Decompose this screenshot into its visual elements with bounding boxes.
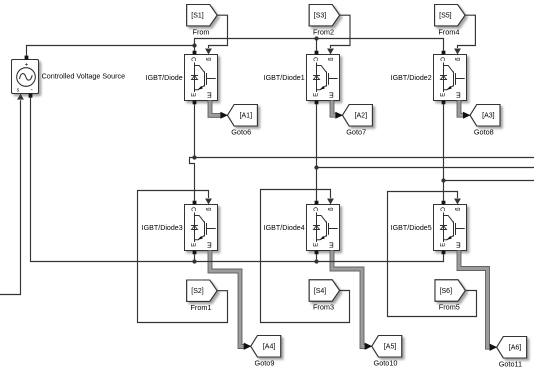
svg-text:From1: From1 (190, 303, 211, 312)
thick measurement wire from m pin of IGBT/Diode2 to [A3] tag (459, 101, 465, 116)
svg-text:-: - (31, 86, 33, 93)
svg-text:IGBT/Diode4: IGBT/Diode4 (264, 224, 305, 232)
arrowhead into [A5] tag (365, 343, 373, 350)
svg-text:[S1]: [S1] (191, 13, 204, 20)
svg-text:From4: From4 (438, 27, 459, 36)
svg-text:Goto8: Goto8 (474, 127, 494, 136)
arrowhead into s input of V1 (17, 94, 24, 100)
node C junction (441, 178, 445, 182)
thick measurement wire from m pin of IGBT/Diode4 to [A5] tag (332, 251, 366, 347)
transistor-diode module IGBT/Diode (top row) (185, 51, 218, 105)
From tag block [S2] (From1) (187, 280, 217, 301)
arrowhead into [A6] tag (490, 344, 498, 351)
wire: gate signal loop from [S2] tag around to g pin (bottom row) (138, 191, 228, 323)
Goto tag block [A4] (Goto9) (251, 336, 281, 358)
svg-text:s: s (17, 88, 20, 94)
wire: gate signal loop from [S4] tag around to g pin (bottom row) (261, 190, 350, 323)
svg-text:+: + (25, 61, 29, 68)
wire: phase C output line to right edge (444, 180, 534, 182)
arrowhead into [A3] tag (463, 112, 471, 119)
svg-text:[S3]: [S3] (314, 13, 327, 20)
wire: positive DC rail from node P to C pins of IGBT/Diode1 and IGBT/Diode2 (195, 39, 444, 51)
wire: gate signal from [S1] tag to g pin (top row) (209, 15, 228, 48)
arrowhead into g pin (from [S2]) (205, 199, 212, 205)
transistor-diode module IGBT/Diode4 (bottom row) (307, 201, 340, 255)
svg-text:From5: From5 (439, 303, 460, 312)
svg-text:[A4]: [A4] (263, 344, 276, 351)
thick measurement wire from m pin of IGBT/Diode3 to [A4] tag (210, 251, 245, 347)
wire: V1 + terminal up and right to node P (27, 46, 195, 57)
svg-text:From3: From3 (313, 303, 334, 312)
svg-text:Controlled Voltage Source: Controlled Voltage Source (42, 72, 126, 81)
transistor-diode module IGBT/Diode1 (top row) (307, 51, 340, 105)
arrowhead into [A1] tag (220, 112, 228, 119)
wire: E of IGBT/Diode4 down to negative rail (316, 254, 318, 261)
arrowhead into [A2] tag (335, 112, 343, 119)
wire: gate signal loop from [S6] tag around to g pin (bottom row) (388, 192, 477, 317)
From tag block [S1] (From) (187, 5, 217, 26)
voltage source V1 (Controlled Voltage Source) block body (12, 60, 39, 94)
svg-text:[A2]: [A2] (355, 113, 368, 120)
arrowhead into g pin (from [S1]) (205, 49, 212, 55)
thick measurement wire from m pin of IGBT/Diode to [A1] tag (210, 101, 222, 116)
node B junction (314, 165, 318, 169)
wire: control signal from left edge into s input of V1 (0, 100, 21, 294)
Goto tag block [A2] (Goto7) (343, 105, 373, 127)
transistor-diode module IGBT/Diode2 (top row) (434, 51, 467, 105)
svg-text:[A3]: [A3] (482, 113, 495, 120)
wire: phase B leg from E of IGBT/Diode1 down to C pin of IGBT/Diode4 (316, 104, 318, 200)
node P junction at C of IGBT/Diode (192, 43, 196, 47)
wire: phase B output line to right edge (317, 167, 534, 169)
wire: E of IGBT/Diode3 down to negative rail (194, 254, 196, 261)
svg-text:Goto11: Goto11 (499, 359, 522, 368)
svg-text:IGBT/Diode2: IGBT/Diode2 (391, 74, 432, 82)
From tag block [S3] (From2) (309, 5, 339, 26)
junction negative rail / IGBT-Diode3 E (192, 259, 196, 263)
wire: phase C leg from E of IGBT/Diode2 down to C pin of IGBT/Diode5 (443, 104, 445, 200)
terminal - port nub of V1 (29, 94, 33, 98)
svg-text:IGBT/Diode5: IGBT/Diode5 (391, 224, 432, 232)
svg-text:Goto7: Goto7 (346, 127, 366, 136)
svg-text:Goto6: Goto6 (231, 127, 251, 136)
Goto tag block [A3] (Goto8) (470, 105, 500, 127)
junction on positive rail above IGBT/Diode1 (314, 36, 318, 40)
thick measurement wire from m pin of IGBT/Diode5 to [A6] tag (459, 251, 491, 348)
svg-text:[S2]: [S2] (191, 288, 204, 295)
svg-text:[A1]: [A1] (240, 113, 253, 120)
Goto tag block [A6] (Goto11) (497, 337, 527, 359)
svg-text:IGBT/Diode: IGBT/Diode (146, 74, 183, 82)
wire: rail drop to C pin of IGBT/Diode1 (316, 39, 318, 51)
terminal + port nub of V1 (25, 56, 29, 60)
From tag block [S6] (From5) (435, 280, 465, 301)
svg-text:IGBT/Diode1: IGBT/Diode1 (264, 74, 305, 82)
node A junction (192, 155, 196, 159)
wire: phase A output line to right edge (195, 157, 534, 159)
svg-text:[S6]: [S6] (440, 288, 453, 295)
svg-text:From2: From2 (313, 27, 334, 36)
svg-text:Goto10: Goto10 (374, 358, 398, 367)
transistor-diode module IGBT/Diode5 (bottom row) (434, 201, 467, 255)
thick measurement wire from m pin of IGBT/Diode1 to [A2] tag (332, 101, 337, 116)
wire: phase A leg from E of IGBT/Diode down to node A (194, 104, 196, 157)
arrowhead into g pin (from [S5]) (454, 49, 461, 55)
svg-text:[A5]: [A5] (384, 344, 397, 351)
From tag block [S4] (From3) (309, 280, 339, 301)
From tag block [S5] (From4) (435, 5, 465, 26)
wire: negative DC rail from V1 - terminal to E pins of bottom row (31, 98, 444, 262)
wire: node A jog down to C pin of IGBT/Diode3 (190, 158, 195, 201)
wire: node P down into C pin of IGBT/Diode (194, 46, 196, 51)
svg-text:From: From (192, 27, 209, 36)
junction negative rail / IGBT-Diode4 E (314, 259, 318, 263)
transistor-diode module IGBT/Diode3 (bottom row) (185, 201, 218, 255)
wire: gate signal from [S3] tag to g pin (top row) (331, 15, 351, 48)
svg-text:[S4]: [S4] (314, 288, 327, 295)
Goto tag block [A1] (Goto6) (228, 105, 258, 127)
svg-text:[A6]: [A6] (509, 345, 522, 352)
wire: gate signal from [S5] tag to g pin (top row) (458, 15, 476, 48)
arrowhead into g pin (from [S4]) (327, 199, 334, 205)
svg-text:Goto9: Goto9 (255, 358, 275, 367)
arrowhead into g pin (from [S3]) (327, 49, 334, 55)
Goto tag block [A5] (Goto10) (372, 336, 402, 358)
svg-text:IGBT/Diode3: IGBT/Diode3 (142, 224, 183, 232)
arrowhead into g pin (from [S6]) (454, 199, 461, 205)
arrowhead into [A4] tag (244, 343, 252, 350)
svg-text:[S5]: [S5] (439, 13, 452, 20)
